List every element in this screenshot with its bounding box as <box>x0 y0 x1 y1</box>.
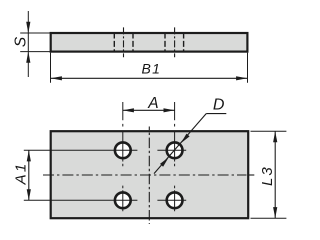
plate top view body <box>51 131 249 218</box>
hidden hole edge line (left hole, right) <box>132 34 134 52</box>
hidden hole edge line (right hole, left) <box>164 34 166 52</box>
D leader arrow upper <box>181 134 190 144</box>
hole cross bottom-left <box>115 192 131 208</box>
svg-text:S: S <box>12 36 29 47</box>
A1 arrow bottom <box>27 189 31 200</box>
S arrow top <box>26 22 30 33</box>
hole column centerline 2 (A extension right) <box>174 102 176 166</box>
A dimension line <box>123 109 175 111</box>
hole centerline row2 right <box>157 199 186 201</box>
hole top-right <box>167 142 183 158</box>
hole centerline row2 left (A1 extension bottom) <box>24 199 138 201</box>
A arrow left <box>123 108 134 112</box>
B1 extension line left <box>50 53 52 83</box>
D leader diagonal <box>154 114 206 174</box>
L3 arrow bottom <box>273 207 277 218</box>
hole centerline row1 left (A1 extension top) <box>24 149 138 151</box>
hole column centerline 2 lower <box>174 186 176 212</box>
svg-text:A1: A1 <box>12 162 29 186</box>
S dimension line <box>27 11 29 77</box>
S extension line top <box>20 32 51 34</box>
hole cross bottom-right <box>167 192 183 208</box>
hole bottom-left <box>115 192 131 208</box>
L3 dimension line <box>274 131 276 218</box>
B1 arrow right <box>236 76 247 80</box>
part vertical centerline <box>148 127 150 225</box>
hole cross top-left <box>115 142 131 158</box>
L3 extension line top <box>251 130 287 132</box>
S arrow bottom <box>26 51 30 62</box>
hole top-left <box>115 142 131 158</box>
hole cross top-right <box>167 142 183 158</box>
hole column centerline 1 (A extension left) <box>122 102 124 166</box>
hole column centerline 1 lower <box>122 186 124 212</box>
part horizontal centerline <box>43 174 247 176</box>
side view centerline hole 2 <box>174 27 176 57</box>
part horizontal centerline tail <box>249 174 254 176</box>
plate side view body <box>51 33 248 52</box>
A1 arrow top <box>27 150 31 161</box>
hole bottom-right <box>167 192 183 208</box>
S extension line bottom <box>20 51 51 53</box>
L3 arrow top <box>273 131 277 142</box>
B1 extension line right <box>247 53 249 83</box>
hole centerline row1 right <box>157 149 186 151</box>
L3 extension line bottom <box>251 217 287 219</box>
hidden hole edge line (right hole, right) <box>183 34 185 52</box>
svg-text:L3: L3 <box>259 165 276 186</box>
B1 arrow left <box>51 76 62 80</box>
D leader arrow lower <box>160 157 169 167</box>
svg-text:B1: B1 <box>142 60 162 76</box>
hidden hole edge line (left hole, left) <box>113 34 115 52</box>
svg-text:A: A <box>147 95 158 112</box>
D leader underline <box>206 113 226 115</box>
side view centerline hole 1 <box>123 27 125 57</box>
A arrow right <box>164 108 175 112</box>
svg-text:D: D <box>213 97 225 114</box>
A1 dimension line <box>28 150 30 200</box>
B1 dimension line <box>51 77 248 79</box>
